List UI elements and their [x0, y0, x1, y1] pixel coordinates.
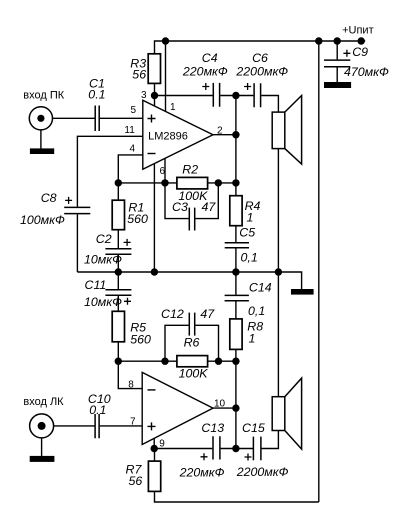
svg-text:C8: C8	[41, 191, 57, 205]
C6 polarity +	[244, 83, 251, 90]
svg-text:C6: C6	[252, 51, 268, 65]
junction: rail / pin 1	[162, 37, 169, 44]
wire: R6 to output column	[208, 360, 236, 362]
junction: node A / R1	[115, 179, 122, 186]
wire: R5 to feedback node B	[117, 342, 119, 361]
ground: input LK chassis bar	[30, 456, 55, 462]
svg-text:R6: R6	[184, 336, 200, 350]
resistor R6	[177, 356, 208, 367]
speaker BA1	[272, 96, 301, 165]
wire: C11 to R5	[117, 296, 119, 311]
speaker BA2	[272, 378, 301, 449]
wire: pin 6 stub	[164, 158, 166, 183]
wire: pin 11 to C8	[77, 136, 142, 206]
svg-text:47: 47	[200, 307, 215, 321]
svg-text:C14: C14	[249, 280, 272, 294]
wire: R3 bottom through pin 3 node into IC top edge	[154, 83, 156, 106]
svg-text:100K: 100K	[179, 367, 209, 381]
svg-text:C3: C3	[172, 200, 188, 214]
svg-text:220мкФ: 220мкФ	[179, 465, 225, 479]
op-amp U1.1 noninverting input + mark	[148, 115, 156, 123]
capacitor C4	[213, 83, 219, 107]
svg-text:вход ПК: вход ПК	[23, 90, 64, 102]
svg-text:6: 6	[160, 166, 166, 177]
wire: input PK ground stem	[40, 130, 42, 149]
junction: R6 to output column	[232, 358, 239, 365]
svg-text:5: 5	[131, 105, 137, 116]
wire: pin 2 output stub	[213, 134, 236, 136]
wire: C2 to ground bus	[117, 255, 119, 272]
svg-text:56: 56	[132, 68, 146, 82]
svg-text:8: 8	[128, 380, 134, 391]
wire: C9 top stem	[336, 41, 338, 59]
svg-text:4: 4	[130, 144, 136, 155]
wire: C5 to ground bus	[235, 248, 237, 272]
svg-text:+Uпит: +Uпит	[342, 25, 374, 37]
C9 polarity +	[343, 50, 350, 57]
junction: C13/C15 node	[232, 445, 239, 452]
svg-text:C13: C13	[201, 421, 224, 435]
wire: C1 to pin 5	[100, 117, 143, 119]
resistor R8	[230, 319, 242, 350]
connector: вход ЛК jack	[30, 414, 54, 438]
svg-text:2200мкФ: 2200мкФ	[235, 65, 288, 79]
svg-text:1: 1	[170, 102, 176, 113]
wire: right vertical rail	[318, 41, 320, 502]
junction: pin 10 output node	[232, 404, 239, 411]
svg-text:560: 560	[130, 333, 151, 347]
wire: pin 1 to Vcc rail	[165, 41, 167, 112]
svg-text:470мкФ: 470мкФ	[344, 65, 389, 79]
capacitor C13	[213, 436, 220, 459]
wire: node A to R1	[117, 183, 119, 200]
svg-text:LM2896: LM2896	[148, 130, 188, 142]
svg-text:C2: C2	[96, 232, 112, 246]
wire: C12 branch right	[195, 325, 218, 361]
junction: pin 6 node	[161, 179, 168, 186]
svg-text:0.1: 0.1	[88, 88, 105, 102]
wire: C4 to C6 through output column node	[220, 95, 253, 97]
svg-text:C9: C9	[352, 45, 368, 59]
wire: feedback node B to R6	[118, 360, 177, 362]
op-amp U1.2 body	[142, 372, 213, 444]
junction: ground bus / speakers	[275, 268, 282, 275]
capacitor C2	[105, 249, 131, 254]
op-amp U1.2 noninverting input + mark	[148, 422, 156, 430]
junction: ground bus / IC ground pin	[151, 268, 158, 275]
wire: R7 top to pin 9 node	[154, 449, 156, 462]
junction: ground bus / C5 C14	[232, 268, 239, 275]
svg-text:1: 1	[249, 332, 256, 346]
svg-text:вход ЛК: вход ЛК	[23, 396, 64, 408]
wire: C13 to C15	[221, 448, 254, 450]
resistor R5	[112, 311, 124, 342]
svg-text:1: 1	[247, 211, 254, 225]
wire: ground bus	[77, 272, 301, 289]
wire: pin 3 node to C4	[155, 95, 213, 97]
wire: IC ground pin to ground bus	[153, 163, 155, 272]
wire: ground bus to C11	[117, 272, 119, 289]
wire: C9 bottom stem to ground	[336, 67, 338, 82]
wire: ground bus to C14	[235, 272, 237, 295]
ground: C9 bar	[324, 82, 351, 88]
capacitor C12	[189, 313, 194, 336]
wire: C10 to pin 7	[100, 425, 143, 427]
wire: input PK connector to C1	[53, 117, 95, 119]
wire: R8 down through pin 10 node to C13/C15 node	[235, 349, 237, 448]
capacitor C8	[64, 207, 90, 213]
svg-text:C15: C15	[242, 421, 265, 435]
wire: R7 bottom to right rail	[155, 491, 319, 502]
capacitor C3	[189, 208, 194, 231]
svg-text:C4: C4	[202, 51, 218, 65]
junction: pin 3 node	[151, 92, 158, 99]
connector: вход ПК jack	[29, 107, 52, 130]
svg-text:7: 7	[130, 417, 136, 428]
svg-text:2200мкФ: 2200мкФ	[236, 465, 289, 479]
svg-text:10: 10	[214, 398, 226, 409]
capacitor C9	[324, 60, 350, 67]
resistor R4	[230, 196, 242, 226]
capacitor C1	[95, 106, 99, 132]
C8 polarity +	[65, 197, 72, 204]
junction: R2/C3 right node	[215, 179, 222, 186]
wire: C14 to R8	[235, 301, 237, 319]
wire: pin 9 stub	[153, 439, 155, 449]
svg-text:0.1: 0.1	[89, 403, 106, 417]
op-amp U1.2 inverting input - mark	[148, 389, 156, 391]
svg-text:0,1: 0,1	[241, 250, 258, 264]
wire: C12 branch left	[165, 325, 189, 361]
svg-text:0,1: 0,1	[248, 304, 265, 318]
wire: C3 branch right	[195, 183, 218, 219]
capacitor C11	[105, 290, 131, 296]
junction: C4/C6 output node	[232, 92, 239, 99]
wire: node B down to pin 8	[118, 361, 142, 388]
svg-text:10мкФ: 10мкФ	[84, 253, 122, 267]
resistor R1	[112, 200, 124, 230]
junction: node B / R5	[115, 358, 122, 365]
svg-text:220мкФ: 220мкФ	[182, 65, 228, 79]
svg-text:R2: R2	[182, 163, 198, 177]
junction: pin 2 output node	[232, 131, 239, 138]
capacitor C15	[253, 437, 261, 461]
wire: R4 to C5	[235, 226, 237, 242]
junction: ground bus / C2 C11	[115, 268, 122, 275]
ground: mid bus bar	[291, 289, 314, 295]
svg-text:9: 9	[159, 439, 165, 450]
C11 polarity +	[124, 298, 131, 305]
wire: output column C4/C6 node down to R4	[235, 96, 237, 196]
wire: speaker BA1 bottom lead to ground bus	[277, 149, 279, 272]
junction: +Uпит terminal	[358, 37, 365, 44]
ground: input PK chassis bar	[30, 148, 54, 154]
wire: pin 9 node to C13	[154, 448, 212, 450]
svg-text:100мкФ: 100мкФ	[20, 213, 65, 227]
C2 polarity +	[124, 239, 131, 246]
wire: +Uпит top rail	[155, 41, 366, 54]
svg-text:560: 560	[127, 212, 148, 226]
resistor R2	[177, 177, 208, 189]
svg-text:47: 47	[202, 200, 217, 214]
wire: C3 branch left	[165, 183, 189, 219]
op-amp U1.1 LM2896 body	[143, 100, 213, 169]
wire: R2 to output column	[208, 182, 236, 184]
capacitor C6	[254, 83, 261, 107]
junction: R2 to output column	[232, 179, 239, 186]
wire: pin 4 to feedback node A	[118, 155, 143, 183]
wire: R1 to C2	[117, 230, 119, 249]
capacitor C14	[225, 295, 249, 300]
wire: feedback node A to R2	[118, 182, 177, 184]
svg-text:2: 2	[217, 126, 223, 137]
svg-text:11: 11	[124, 125, 135, 136]
wire: C8 to ground bus corner	[76, 214, 78, 272]
svg-text:C5: C5	[239, 226, 255, 240]
svg-text:10мкФ: 10мкФ	[84, 295, 122, 309]
wire: input LK connector to C10	[54, 425, 95, 427]
C4 polarity +	[202, 83, 209, 90]
svg-text:C12: C12	[161, 307, 184, 321]
junction: C12 left node	[161, 358, 168, 365]
wire: C6 to speaker BA1	[261, 96, 278, 113]
wire: C15 to speaker BA2	[261, 431, 278, 449]
capacitor C5	[225, 243, 249, 248]
capacitor C10	[95, 414, 99, 438]
resistor R3	[148, 54, 160, 84]
resistor R7	[148, 461, 160, 491]
svg-text:C11: C11	[85, 278, 107, 292]
wire: input LK ground stem	[41, 438, 43, 456]
C15 polarity +	[245, 454, 252, 461]
junction: rail / C9	[334, 37, 341, 44]
svg-text:3: 3	[141, 90, 147, 101]
op-amp U1.1 inverting input - mark	[148, 153, 156, 155]
wire: pin 10 output stub	[213, 407, 236, 409]
svg-text:56: 56	[129, 474, 143, 488]
junction: pin 9 node	[151, 445, 158, 452]
junction: rail / right rail	[315, 37, 322, 44]
wire: speaker BA2 top lead to ground bus	[277, 272, 279, 397]
C13 polarity +	[201, 453, 208, 460]
junction: R6/C12 right node	[215, 358, 222, 365]
